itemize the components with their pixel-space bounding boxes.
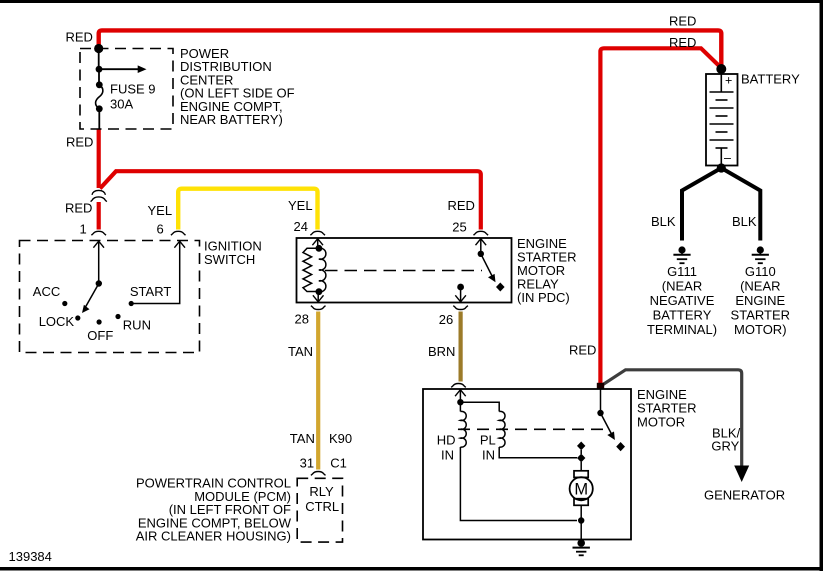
svg-text:6: 6: [157, 222, 164, 237]
label RED top right 1: [669, 14, 696, 29]
pin label 1: [80, 222, 87, 237]
wire HD winding return: [460, 447, 577, 521]
motor M: [570, 471, 593, 540]
ignition switch pin 6 path to START: [131, 241, 185, 304]
svg-text:RLY: RLY: [309, 484, 334, 499]
svg-text:ACC: ACC: [33, 284, 60, 299]
relay coil winding: [303, 245, 326, 295]
wire RED battery to engine starter motor: [600, 48, 721, 384]
svg-text:C1: C1: [330, 456, 347, 471]
label G111 description: [647, 264, 717, 337]
label RUN: [123, 318, 151, 333]
svg-text:START: START: [130, 284, 171, 299]
svg-text:26: 26: [439, 312, 453, 327]
svg-text:AIR CLEANER HOUSING): AIR CLEANER HOUSING): [136, 529, 291, 544]
svg-text:IN: IN: [482, 448, 495, 463]
svg-text:RED: RED: [66, 30, 93, 45]
wire RED branch to relay pin 25: [100, 171, 481, 229]
svg-text:G110: G110: [745, 264, 776, 279]
svg-text:RUN: RUN: [123, 318, 151, 333]
svg-text:MOTOR): MOTOR): [734, 322, 786, 337]
svg-text:HD: HD: [437, 433, 456, 448]
starter pull-in winding PL IN: [499, 411, 505, 447]
svg-text:RED: RED: [448, 198, 475, 213]
svg-text:CTRL: CTRL: [305, 499, 339, 514]
svg-text:TERMINAL): TERMINAL): [647, 322, 717, 337]
label ACC: [33, 284, 60, 299]
connector cup relay pin 28: [311, 306, 326, 310]
label G110 description: [731, 264, 790, 337]
svg-text:ENGINE: ENGINE: [735, 293, 785, 308]
svg-text:BATTERY: BATTERY: [653, 308, 712, 323]
connector cup relay pin 24: [310, 231, 325, 235]
relay pin 24 entry: [312, 238, 323, 248]
svg-text:M: M: [574, 481, 588, 499]
ignition switch contact START: [129, 301, 134, 306]
wire TAN relay pin 28 to PCM pin 31: [316, 312, 320, 470]
wire PL winding return: [499, 447, 577, 458]
pin label 26: [439, 312, 453, 327]
label Power Distribution Center description: [180, 46, 295, 127]
label ENGINE STARTER MOTOR RELAY: [517, 236, 576, 305]
label PCM description: [136, 476, 292, 544]
ignition switch contact OFF: [97, 319, 102, 324]
ignition switch contact RUN: [115, 314, 120, 319]
svg-text:RED: RED: [65, 201, 92, 216]
svg-text:BATTERY: BATTERY: [741, 72, 800, 87]
svg-text:24: 24: [294, 219, 308, 234]
label YEL pin 24: [288, 198, 313, 213]
label PL IN: [480, 433, 496, 463]
circuit label K90: [329, 431, 352, 446]
label FUSE 9 30A: [110, 82, 156, 112]
label ENGINE STARTER MOTOR: [637, 387, 696, 429]
starter mechanical link dashed: [458, 428, 606, 430]
wire BLK/GRY starter motor to generator: [602, 370, 750, 482]
svg-text:BLK: BLK: [651, 214, 676, 229]
label HD IN: [437, 433, 456, 463]
wire BRN relay pin 26 to starter motor: [459, 312, 463, 382]
engine starter motor relay box: [297, 238, 512, 303]
svg-text:TAN: TAN: [288, 344, 313, 359]
svg-text:G111: G111: [667, 264, 697, 279]
svg-text:LOCK: LOCK: [39, 314, 75, 329]
svg-text:139384: 139384: [9, 549, 52, 564]
svg-text:RED: RED: [66, 135, 93, 150]
label START: [130, 284, 171, 299]
connector cup ignition pin 1: [91, 231, 106, 235]
starter solenoid feed entry: [455, 389, 499, 412]
label RED mid: [569, 343, 596, 358]
starter solenoid switch blade: [597, 389, 615, 440]
label RED below PDC: [66, 135, 93, 150]
svg-text:BRN: BRN: [428, 344, 455, 359]
svg-text:OFF: OFF: [87, 328, 113, 343]
pin label 25: [452, 220, 466, 235]
relay pin 25 entry: [476, 238, 487, 254]
svg-text:TAN: TAN: [290, 431, 315, 446]
label RED pin 1: [65, 201, 92, 216]
starter hold-in winding HD IN: [460, 411, 466, 447]
fuse FUSE 9 30A: [96, 81, 103, 129]
label GENERATOR: [704, 488, 785, 503]
svg-text:GRY: GRY: [711, 439, 739, 454]
ground G111: [673, 246, 690, 263]
svg-text:MOTOR: MOTOR: [637, 414, 685, 429]
node battery negative junction: [717, 163, 726, 172]
engine starter motor box: [423, 389, 631, 540]
svg-text:NEGATIVE: NEGATIVE: [650, 293, 715, 308]
svg-text:–: –: [724, 151, 731, 165]
svg-text:25: 25: [452, 220, 466, 235]
ignition switch pin 1 entry: [93, 241, 104, 284]
connector cup PCM pin 31: [311, 472, 326, 476]
battery: [706, 74, 738, 166]
svg-text:(NEAR: (NEAR: [662, 279, 702, 294]
svg-text:GENERATOR: GENERATOR: [704, 488, 785, 503]
svg-text:NEAR BATTERY): NEAR BATTERY): [180, 112, 283, 127]
svg-text:PL: PL: [480, 433, 496, 448]
svg-text:RED: RED: [669, 14, 696, 29]
label RED pin 25: [448, 198, 475, 213]
wire BLK battery negative to G110: [721, 168, 760, 241]
svg-text:28: 28: [295, 312, 309, 327]
label TAN lower: [290, 431, 315, 446]
svg-text:FUSE 9: FUSE 9: [110, 82, 156, 97]
label LOCK: [39, 314, 75, 329]
label RED top right 2: [669, 35, 696, 50]
svg-text:IN: IN: [441, 448, 454, 463]
ignition switch contact LOCK: [75, 315, 80, 320]
wire RED battery to fuse feed: [99, 30, 722, 67]
svg-text:BLK: BLK: [732, 214, 757, 229]
ground G110: [752, 246, 769, 263]
node motor ground junction: [578, 517, 584, 523]
label YEL pin 6: [148, 203, 173, 218]
pin label 31: [300, 456, 314, 471]
svg-text:RED: RED: [669, 35, 696, 50]
starter solenoid stationary contact: [616, 442, 625, 451]
label OFF: [87, 328, 113, 343]
svg-text:SWITCH: SWITCH: [204, 252, 255, 267]
label RLY CTRL: [305, 484, 339, 514]
inline connector on RED wire: [91, 190, 107, 201]
connector cup relay pin 26: [453, 306, 468, 310]
connector cup relay pin 25: [474, 231, 489, 235]
pin label C1: [330, 456, 347, 471]
relay stationary contact: [496, 283, 505, 292]
label BLK left: [651, 214, 676, 229]
connector cup starter motor input: [451, 384, 466, 388]
wire YEL ignition switch pin 6 to relay pin 24: [178, 189, 317, 230]
relay mechanical link dashed: [325, 270, 482, 272]
label BATTERY: [741, 72, 800, 87]
node starter motor red junction: [597, 383, 604, 389]
pin label 24: [294, 219, 308, 234]
node battery positive junction: [716, 64, 726, 74]
label BRN: [428, 344, 455, 359]
ground starter motor case: [573, 539, 590, 555]
starter motor contact terminals: [577, 442, 585, 472]
relay pin 28 exit: [313, 292, 324, 303]
node PDC bus tap with arrow: [96, 65, 147, 84]
svg-text:STARTER: STARTER: [731, 308, 790, 323]
svg-text:30A: 30A: [110, 97, 133, 112]
svg-text:K90: K90: [329, 431, 352, 446]
label RED top left: [66, 30, 93, 45]
ignition switch rotor blade: [82, 280, 102, 313]
svg-text:1: 1: [80, 222, 87, 237]
powertrain control module box: [297, 478, 342, 542]
pin label 28: [295, 312, 309, 327]
svg-text:RED: RED: [569, 343, 596, 358]
svg-text:31: 31: [300, 456, 314, 471]
label IGNITION SWITCH: [204, 239, 262, 268]
ignition switch box: [20, 241, 200, 353]
svg-text:YEL: YEL: [288, 198, 313, 213]
label TAN upper: [288, 344, 313, 359]
svg-text:+: +: [725, 74, 732, 88]
wire BLK battery negative to G111: [682, 168, 721, 241]
pin label 6: [157, 222, 164, 237]
wire RED fuse output to ignition switch pin 1: [97, 129, 101, 230]
svg-text:YEL: YEL: [148, 203, 173, 218]
node PDC feed junction: [94, 44, 103, 69]
ignition switch contact ACC: [62, 301, 67, 306]
svg-text:(IN PDC): (IN PDC): [517, 290, 570, 305]
relay pin 26 exit: [455, 284, 466, 303]
Power Distribution Center box: [80, 49, 173, 130]
figure number 139384: [9, 549, 52, 564]
label BLK right: [732, 214, 757, 229]
label BLK/GRY: [711, 426, 740, 454]
relay switch blade: [478, 251, 496, 283]
svg-text:(NEAR: (NEAR: [740, 279, 780, 294]
connector cup ignition pin 6: [171, 231, 186, 235]
